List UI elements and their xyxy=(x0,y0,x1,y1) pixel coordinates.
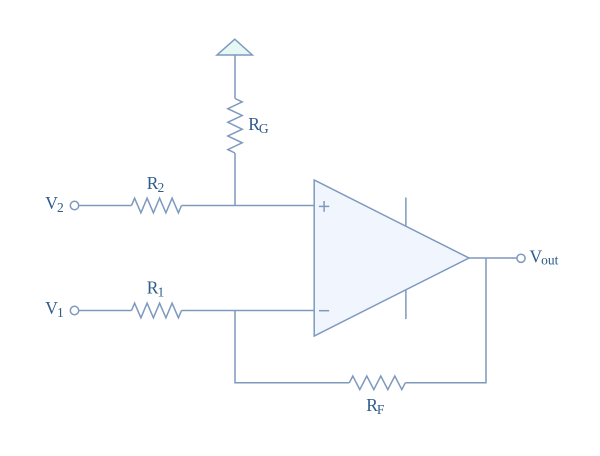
svg-text:Vout: Vout xyxy=(530,247,559,268)
svg-text:R1: R1 xyxy=(147,278,164,300)
svg-text:R2: R2 xyxy=(147,173,164,195)
svg-text:V2: V2 xyxy=(45,193,63,215)
svg-text:RG: RG xyxy=(248,114,269,136)
svg-text:RF: RF xyxy=(366,395,385,417)
svg-text:V1: V1 xyxy=(45,298,63,320)
